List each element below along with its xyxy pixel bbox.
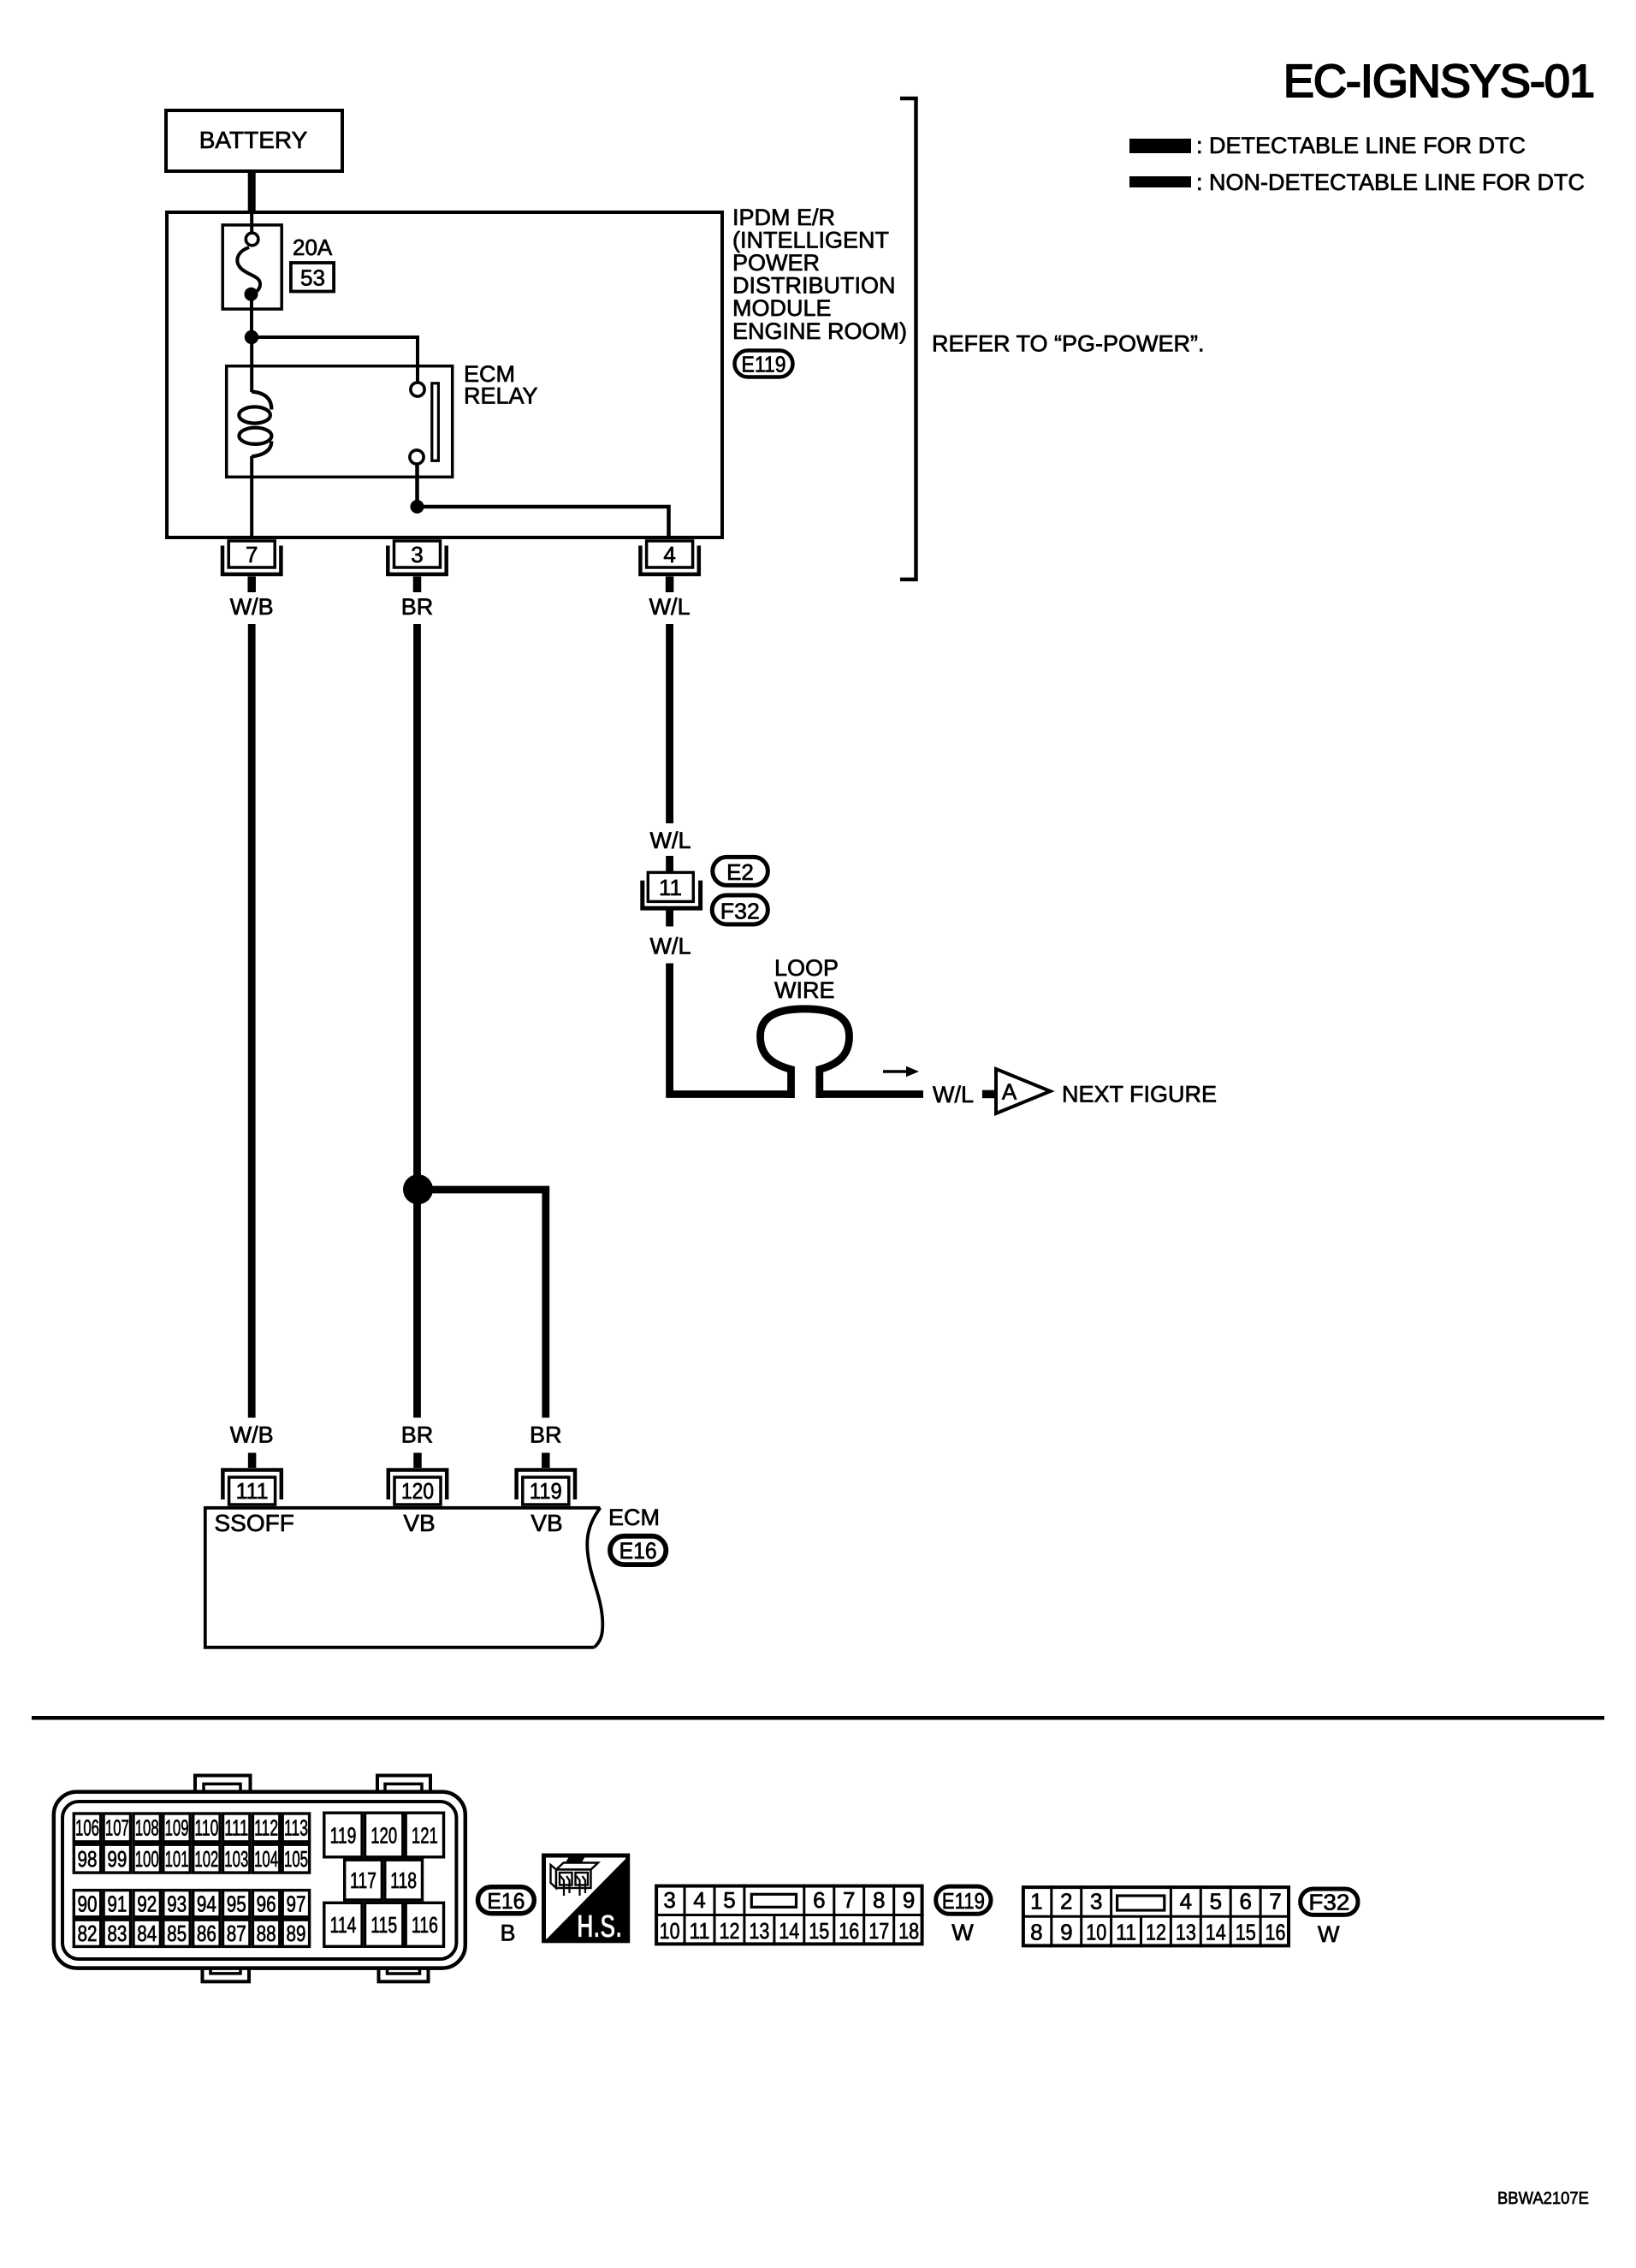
inline connector pin 11 bbox=[643, 872, 701, 908]
svg-text:82: 82 bbox=[78, 1921, 98, 1946]
svg-text:109: 109 bbox=[165, 1815, 189, 1841]
svg-text:7: 7 bbox=[1269, 1889, 1281, 1915]
svg-text:99: 99 bbox=[107, 1846, 127, 1872]
wire stub below connector 11 bbox=[666, 911, 673, 927]
relay label bbox=[464, 361, 538, 409]
svg-text:BR: BR bbox=[530, 1422, 562, 1448]
svg-text:BBWA2107E: BBWA2107E bbox=[1497, 2189, 1589, 2208]
svg-text:114: 114 bbox=[330, 1912, 357, 1938]
wire stub above ECM pin 119 bbox=[542, 1453, 550, 1469]
svg-text:4: 4 bbox=[663, 542, 675, 567]
svg-text:100: 100 bbox=[135, 1846, 159, 1872]
svg-text:3: 3 bbox=[1090, 1889, 1102, 1915]
svg-text:ENGINE ROOM): ENGINE ROOM) bbox=[732, 318, 907, 344]
svg-text:W/B: W/B bbox=[230, 594, 274, 620]
pin 111 cell bbox=[223, 1814, 250, 1842]
wire stub at A bbox=[982, 1090, 998, 1099]
svg-text:7: 7 bbox=[843, 1887, 855, 1913]
IPDM E/R pin 3 connector bbox=[388, 541, 446, 574]
svg-text:6: 6 bbox=[1239, 1889, 1251, 1915]
wire IPDM top to fuse bbox=[250, 211, 253, 233]
wire battery to IPDM (thick W) bbox=[248, 171, 256, 211]
wire stub above ECM pin 120 bbox=[413, 1453, 422, 1469]
svg-text:111: 111 bbox=[224, 1815, 248, 1841]
pin 87 cell bbox=[223, 1920, 250, 1946]
connector face E16 shell bbox=[54, 1776, 465, 1982]
wire junction to relay coil bbox=[250, 337, 253, 392]
svg-text:IPDM E/R: IPDM E/R bbox=[732, 205, 835, 230]
IPDM E/R pin 4 connector bbox=[640, 541, 698, 574]
pin 121 cell bbox=[406, 1813, 443, 1857]
junction node (relay output) bbox=[411, 500, 424, 514]
svg-text:4: 4 bbox=[693, 1887, 705, 1913]
connector label F32 oval bbox=[712, 895, 768, 924]
svg-text:VB: VB bbox=[403, 1510, 435, 1536]
svg-text:8: 8 bbox=[873, 1887, 885, 1913]
wire relay output to connector 4 bbox=[418, 507, 669, 539]
svg-text:1: 1 bbox=[1030, 1889, 1042, 1915]
svg-text:DISTRIBUTION: DISTRIBUTION bbox=[732, 273, 896, 299]
svg-text:BR: BR bbox=[401, 1422, 434, 1448]
ECM pin 120 connector bbox=[388, 1470, 447, 1505]
svg-text:B: B bbox=[500, 1921, 515, 1946]
svg-text:15: 15 bbox=[809, 1918, 829, 1944]
svg-text:ECM: ECM bbox=[608, 1505, 660, 1530]
pin 96 cell bbox=[252, 1891, 279, 1917]
battery bbox=[166, 110, 342, 171]
fuse number 53 box bbox=[291, 263, 334, 292]
svg-text:112: 112 bbox=[254, 1815, 278, 1841]
relay coil bbox=[239, 392, 271, 457]
svg-text:104: 104 bbox=[254, 1846, 278, 1872]
svg-text:110: 110 bbox=[194, 1815, 218, 1841]
off-page connector A bbox=[996, 1069, 1051, 1113]
connector label E119 oval (face) bbox=[936, 1886, 991, 1914]
svg-text:: NON-DETECTABLE LINE FOR DTC: : NON-DETECTABLE LINE FOR DTC bbox=[1196, 169, 1585, 195]
svg-text:8: 8 bbox=[1030, 1920, 1042, 1945]
svg-text:15: 15 bbox=[1236, 1920, 1256, 1945]
svg-text:W/L: W/L bbox=[649, 828, 691, 853]
pin 120 cell bbox=[365, 1813, 403, 1857]
pin 104 cell bbox=[252, 1844, 279, 1873]
svg-text:E2: E2 bbox=[726, 859, 754, 885]
svg-text:117: 117 bbox=[350, 1867, 376, 1893]
pin 102 cell bbox=[193, 1844, 220, 1873]
connector label E2 oval bbox=[713, 857, 768, 885]
pin 100 cell bbox=[133, 1844, 160, 1873]
svg-text:: DETECTABLE LINE FOR DTC: : DETECTABLE LINE FOR DTC bbox=[1196, 133, 1526, 158]
svg-text:115: 115 bbox=[370, 1912, 397, 1938]
svg-text:RELAY: RELAY bbox=[464, 383, 538, 409]
svg-text:120: 120 bbox=[370, 1822, 397, 1848]
relay contact bbox=[410, 383, 438, 464]
svg-text:20A: 20A bbox=[293, 235, 333, 260]
pin 91 cell bbox=[104, 1891, 130, 1917]
junction node (fuse output) bbox=[245, 330, 258, 344]
svg-text:106: 106 bbox=[75, 1815, 99, 1841]
svg-text:111: 111 bbox=[236, 1478, 269, 1504]
pin 89 cell bbox=[282, 1920, 309, 1946]
svg-text:89: 89 bbox=[287, 1921, 306, 1946]
legend detectable line sample bbox=[1129, 139, 1191, 153]
svg-text:14: 14 bbox=[1206, 1920, 1226, 1945]
svg-text:W: W bbox=[1318, 1921, 1340, 1947]
svg-text:84: 84 bbox=[137, 1921, 157, 1946]
loop wire label bbox=[774, 955, 839, 1003]
svg-text:116: 116 bbox=[412, 1912, 438, 1938]
svg-text:16: 16 bbox=[839, 1918, 859, 1944]
ECM pin 119 connector bbox=[517, 1470, 575, 1505]
svg-text:5: 5 bbox=[723, 1887, 735, 1913]
keying slot (F32) bbox=[1117, 1896, 1165, 1910]
pin 90 cell bbox=[74, 1891, 100, 1917]
svg-text:W/B: W/B bbox=[230, 1422, 274, 1448]
pin 105 cell bbox=[282, 1844, 309, 1873]
svg-text:W/L: W/L bbox=[649, 934, 691, 959]
svg-text:119: 119 bbox=[330, 1822, 357, 1848]
brace refer to PG-POWER bbox=[900, 98, 916, 579]
wire W/L down and right to loop bbox=[670, 964, 791, 1095]
pin 98 cell bbox=[74, 1844, 100, 1873]
svg-text:11: 11 bbox=[1116, 1920, 1136, 1945]
separator line bbox=[32, 1716, 1604, 1720]
svg-text:113: 113 bbox=[284, 1815, 308, 1841]
connector label E16 oval bbox=[610, 1536, 666, 1564]
ECM pin 111 connector bbox=[222, 1470, 281, 1505]
loop wire symbol bbox=[761, 1009, 850, 1098]
svg-text:REFER TO “PG-POWER”.: REFER TO “PG-POWER”. bbox=[932, 331, 1205, 357]
pin 106 cell bbox=[74, 1814, 100, 1842]
direction arrow bbox=[883, 1066, 919, 1078]
IPDM E/R label bbox=[732, 205, 907, 344]
svg-text:102: 102 bbox=[194, 1846, 218, 1872]
wire relay contact to junction bbox=[415, 464, 419, 507]
wire fuse to junction bbox=[250, 300, 253, 337]
pin 109 cell bbox=[163, 1814, 190, 1842]
svg-text:108: 108 bbox=[135, 1815, 159, 1841]
svg-text:VB: VB bbox=[531, 1510, 562, 1536]
pin 110 cell bbox=[193, 1814, 220, 1842]
svg-text:93: 93 bbox=[167, 1891, 187, 1917]
wire loop to next-figure bbox=[820, 1090, 923, 1098]
connector label E16 oval (face) bbox=[478, 1887, 535, 1914]
wire W/L (pin4 down) bbox=[666, 624, 673, 823]
svg-text:7: 7 bbox=[246, 542, 258, 567]
svg-text:W/L: W/L bbox=[649, 594, 691, 620]
pin 103 cell bbox=[223, 1844, 250, 1873]
svg-text:88: 88 bbox=[257, 1921, 276, 1946]
svg-text:9: 9 bbox=[1060, 1920, 1072, 1945]
svg-text:105: 105 bbox=[284, 1846, 308, 1872]
svg-text:H.S.: H.S. bbox=[577, 1909, 622, 1945]
pin 114 cell bbox=[324, 1903, 362, 1946]
pin 83 cell bbox=[104, 1920, 130, 1946]
svg-text:2: 2 bbox=[1060, 1889, 1072, 1915]
pin 117 cell bbox=[345, 1860, 382, 1900]
svg-text:3: 3 bbox=[411, 542, 423, 567]
pin 99 cell bbox=[104, 1844, 130, 1873]
junction node BR branch bbox=[403, 1174, 433, 1204]
connector label E119 oval bbox=[735, 351, 793, 377]
svg-text:WIRE: WIRE bbox=[774, 977, 835, 1003]
wire stub below pin 4 bbox=[666, 577, 674, 593]
wire stub below pin 7 bbox=[247, 577, 256, 593]
pin 84 cell bbox=[133, 1920, 160, 1946]
keying slot (E119) bbox=[751, 1894, 796, 1907]
legend non-detectable line sample bbox=[1129, 176, 1191, 187]
pin 95 cell bbox=[223, 1891, 250, 1917]
svg-text:F32: F32 bbox=[1308, 1890, 1349, 1915]
IPDM E/R pin 7 connector bbox=[222, 541, 281, 574]
svg-text:94: 94 bbox=[197, 1891, 216, 1917]
svg-text:W: W bbox=[951, 1920, 974, 1945]
wire stub above connector 11 bbox=[666, 856, 673, 872]
svg-text:NEXT FIGURE: NEXT FIGURE bbox=[1062, 1082, 1217, 1107]
pin 97 cell bbox=[282, 1891, 309, 1917]
svg-text:MODULE: MODULE bbox=[732, 295, 832, 321]
pin 85 cell bbox=[163, 1920, 190, 1946]
pin 113 cell bbox=[282, 1814, 309, 1842]
svg-text:SSOFF: SSOFF bbox=[215, 1510, 294, 1536]
svg-text:12: 12 bbox=[1146, 1920, 1166, 1945]
svg-text:E16: E16 bbox=[487, 1888, 525, 1914]
svg-text:EC-IGNSYS-01: EC-IGNSYS-01 bbox=[1283, 56, 1594, 107]
pin 93 cell bbox=[163, 1891, 190, 1917]
svg-text:(INTELLIGENT: (INTELLIGENT bbox=[732, 228, 889, 253]
svg-text:119: 119 bbox=[530, 1478, 562, 1504]
svg-text:13: 13 bbox=[749, 1918, 769, 1944]
svg-text:118: 118 bbox=[390, 1867, 417, 1893]
svg-text:E119: E119 bbox=[742, 352, 786, 377]
svg-text:11: 11 bbox=[659, 875, 682, 900]
svg-text:86: 86 bbox=[197, 1921, 216, 1946]
wire BR (pin3 to ECM 120) bbox=[413, 624, 421, 1418]
svg-text:12: 12 bbox=[720, 1918, 740, 1944]
connector face E119 outline bbox=[656, 1886, 922, 1944]
IPDM E/R box bbox=[167, 212, 722, 537]
ECM relay box bbox=[227, 366, 453, 478]
svg-text:E16: E16 bbox=[619, 1538, 657, 1564]
svg-text:92: 92 bbox=[137, 1891, 157, 1917]
svg-text:121: 121 bbox=[412, 1822, 438, 1848]
svg-text:107: 107 bbox=[105, 1815, 129, 1841]
svg-text:91: 91 bbox=[107, 1891, 127, 1917]
pin 115 cell bbox=[365, 1903, 403, 1946]
svg-text:F32: F32 bbox=[720, 899, 760, 924]
svg-text:90: 90 bbox=[78, 1891, 98, 1917]
svg-text:W/L: W/L bbox=[933, 1082, 974, 1107]
pin 86 cell bbox=[193, 1920, 220, 1946]
wire coil to connector 7 bbox=[250, 456, 253, 539]
svg-text:9: 9 bbox=[903, 1887, 915, 1913]
svg-text:103: 103 bbox=[224, 1846, 248, 1872]
pin 82 cell bbox=[74, 1920, 100, 1946]
svg-text:14: 14 bbox=[779, 1918, 799, 1944]
svg-text:83: 83 bbox=[107, 1921, 127, 1946]
connector face F32 outline bbox=[1023, 1887, 1289, 1945]
svg-text:10: 10 bbox=[660, 1918, 680, 1944]
svg-text:BATTERY: BATTERY bbox=[199, 127, 308, 153]
svg-text:16: 16 bbox=[1266, 1920, 1286, 1945]
svg-text:85: 85 bbox=[167, 1921, 187, 1946]
pin 116 cell bbox=[406, 1903, 443, 1946]
svg-text:17: 17 bbox=[868, 1918, 889, 1944]
svg-text:120: 120 bbox=[401, 1478, 434, 1504]
svg-text:53: 53 bbox=[300, 265, 325, 291]
pin 101 cell bbox=[163, 1844, 190, 1873]
pin 112 cell bbox=[252, 1814, 279, 1842]
svg-text:E119: E119 bbox=[942, 1888, 985, 1914]
svg-text:5: 5 bbox=[1210, 1889, 1222, 1915]
svg-text:4: 4 bbox=[1180, 1889, 1192, 1915]
ECM box (torn edge) bbox=[205, 1508, 601, 1648]
svg-text:3: 3 bbox=[663, 1887, 675, 1913]
svg-text:A: A bbox=[1002, 1079, 1017, 1105]
wire stub below pin 3 bbox=[413, 577, 422, 593]
pin 92 cell bbox=[133, 1891, 160, 1917]
svg-text:13: 13 bbox=[1176, 1920, 1196, 1945]
pin 107 cell bbox=[104, 1814, 130, 1842]
svg-text:101: 101 bbox=[165, 1846, 189, 1872]
pin 94 cell bbox=[193, 1891, 220, 1917]
wire stub above ECM pin 111 bbox=[248, 1453, 257, 1469]
svg-text:98: 98 bbox=[78, 1846, 98, 1872]
svg-text:95: 95 bbox=[227, 1891, 246, 1917]
wire BR branch to ECM 119 bbox=[428, 1190, 546, 1418]
pin 118 cell bbox=[385, 1860, 423, 1900]
svg-text:10: 10 bbox=[1086, 1920, 1106, 1945]
connector label F32 oval (face) bbox=[1301, 1889, 1358, 1915]
svg-text:18: 18 bbox=[898, 1918, 919, 1944]
wire junction to relay contact bbox=[252, 337, 418, 382]
svg-text:97: 97 bbox=[287, 1891, 306, 1917]
pin 88 cell bbox=[252, 1920, 279, 1946]
svg-text:BR: BR bbox=[401, 594, 434, 620]
fuse element bbox=[237, 233, 260, 301]
svg-text:6: 6 bbox=[813, 1887, 825, 1913]
svg-text:87: 87 bbox=[227, 1921, 246, 1946]
pin 108 cell bbox=[133, 1814, 160, 1842]
svg-text:POWER: POWER bbox=[732, 250, 820, 276]
svg-text:96: 96 bbox=[257, 1891, 276, 1917]
H.S. view icon bbox=[544, 1855, 629, 1945]
wire W/B (pin7 to ECM 111) bbox=[248, 624, 256, 1418]
svg-text:11: 11 bbox=[690, 1918, 710, 1944]
fuse 20A box bbox=[222, 225, 282, 309]
pin 119 cell bbox=[324, 1813, 362, 1857]
